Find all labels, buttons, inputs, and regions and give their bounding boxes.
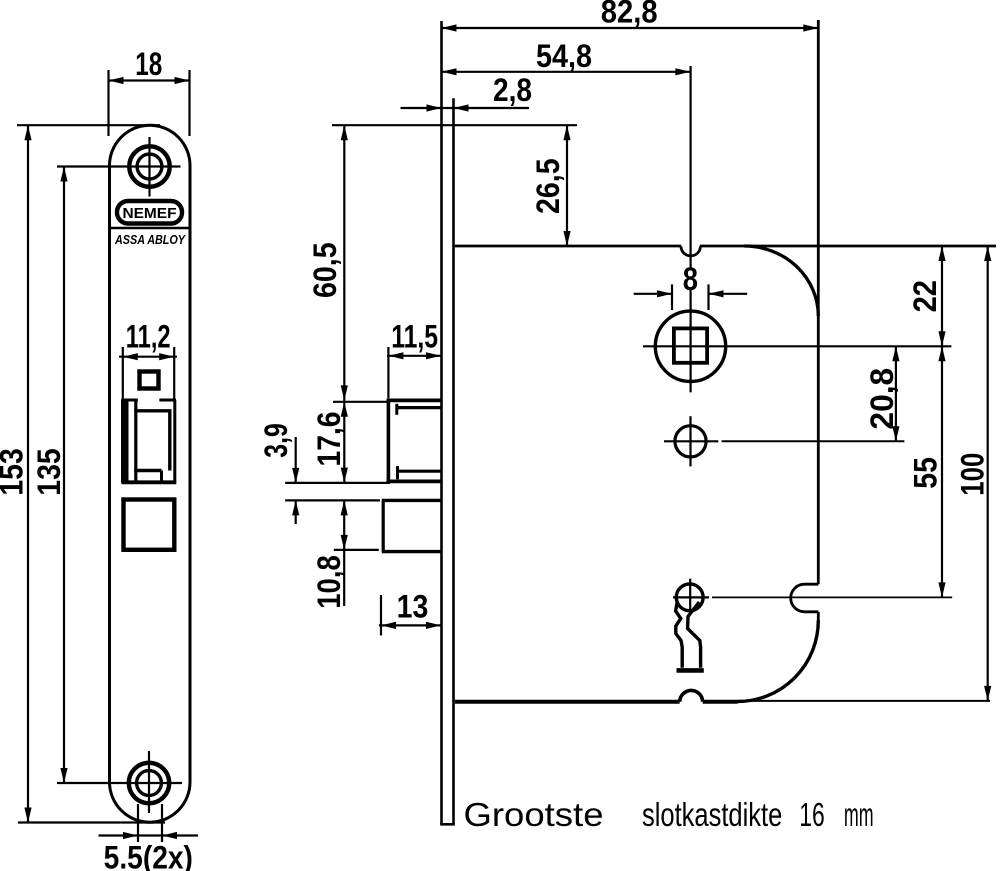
dimension 55 arrow bottom (938, 582, 945, 597)
latch cutout bottom edge (121, 480, 176, 484)
latch face black bar (121, 400, 129, 483)
dimension 82,8 arrow right (803, 24, 818, 31)
dimension 8 arrow left (657, 290, 672, 297)
case bottom edge left part (455, 700, 680, 704)
extension line y402 latch top (333, 401, 388, 403)
keyhole stem right profile (688, 602, 701, 668)
fixing hole circle (675, 426, 706, 457)
dimension 82,8 line (442, 27, 819, 29)
dimension 22 arrow top (938, 246, 945, 261)
extension line y550 for 10,8 (334, 549, 379, 551)
dimension 18 line (109, 79, 190, 81)
dimension 10,8 line (343, 500, 345, 606)
latch inner bottom line (134, 469, 161, 472)
case bottom extension line for 100 (738, 700, 991, 702)
svg-text:55: 55 (908, 457, 944, 489)
dimension 11,5 line (387, 355, 441, 357)
case top edge (455, 245, 682, 248)
case bottom notch (680, 690, 703, 701)
dimension 11,5 arrow right (426, 352, 441, 359)
top screw hole outer circle (129, 146, 169, 186)
dimension 54,8 line (442, 71, 691, 73)
svg-text:mm: mm (844, 796, 874, 833)
top screw centerline vertical (148, 137, 150, 197)
latch cutout right edge (173, 400, 176, 483)
case top edge right part / extension (700, 245, 996, 248)
dimension 5.5(2x) line (99, 834, 199, 836)
fixing hole centerline horizontal (664, 440, 718, 442)
latch side view bottom edge (387, 479, 441, 483)
deadbolt side view bottom edge (382, 550, 441, 553)
dimension 54,8 arrow right (675, 68, 690, 75)
dimension 135 arrow top (60, 167, 67, 182)
svg-text:5.5(2x): 5.5(2x) (104, 840, 193, 871)
latch inner top line (134, 409, 171, 412)
extension line y483 latch bottom (285, 482, 390, 484)
dimension 13 line (379, 624, 441, 626)
svg-text:60,5: 60,5 (307, 242, 343, 298)
svg-text:3,9: 3,9 (258, 423, 294, 457)
latch side view bottom lip (398, 470, 442, 473)
svg-text:153: 153 (0, 448, 30, 496)
case right edge upper / 82,8 extension (817, 20, 820, 584)
svg-text:11,2: 11,2 (126, 318, 171, 354)
keyhole bottom bar (677, 668, 704, 673)
dimension 22 line (941, 246, 943, 346)
bottom screw centerline horizontal / 135 extension (57, 782, 182, 784)
case right edge lower stub (817, 612, 820, 621)
svg-text:ASSA ABLOY: ASSA ABLOY (114, 232, 186, 247)
dimension 82,8 arrow left (442, 24, 457, 31)
dimension 20,8 arrow bottom (892, 426, 899, 441)
spindle centerline vertical lower (689, 290, 691, 393)
svg-text:82,8: 82,8 (601, 0, 658, 30)
dimension 60,5 line (343, 125, 345, 400)
svg-text:8: 8 (683, 261, 698, 297)
dimension 55 arrow top (938, 346, 945, 361)
dimension 5.5(2x) extension right (161, 804, 163, 842)
spindle centerline vertical upper / 54,8 extension (689, 66, 691, 269)
dimension 18 arrow right (175, 77, 190, 84)
dimension 8 arrow right (709, 290, 724, 297)
dimension 3,9 arrow upper (292, 468, 299, 483)
dimension 2,8 line (401, 107, 530, 109)
svg-text:100: 100 (954, 453, 990, 496)
NEMEF badge outline (117, 201, 182, 224)
dimension 11,5 extension left (387, 347, 389, 398)
dimension 26,5 arrow top (563, 125, 570, 140)
dimension 11,2 extension right (173, 347, 175, 399)
dimension 8 line right (709, 293, 748, 295)
fixing hole centerline vertical (689, 416, 691, 466)
latch side view top step (395, 404, 398, 415)
case top right corner arc (744, 246, 818, 316)
top screw centerline horizontal / 135 extension (57, 165, 181, 167)
extension line y125 for 60,5 and 26,5 (332, 124, 577, 126)
dimension 20,8 line (895, 346, 897, 441)
keyhole extension line for 55 (712, 596, 952, 598)
bottom screw centerline vertical (148, 751, 150, 813)
dimension 55 line (941, 346, 943, 597)
dimension 153 arrow top (24, 125, 31, 140)
keyhole centerline horizontal (673, 596, 709, 598)
latch side view bottom step (396, 466, 399, 479)
dimension 10,8 arrow top (341, 500, 348, 515)
svg-text:16: 16 (799, 796, 824, 833)
dimension 8 extension left (671, 284, 673, 310)
dimension 60,5 arrow bottom (341, 385, 348, 400)
dimension 2,8 arrow right (454, 104, 469, 111)
dimension 13 arrow left (381, 622, 396, 629)
top screw hole inner circle (137, 154, 162, 179)
svg-text:11,5: 11,5 (391, 318, 438, 354)
dimension 13 extension left (380, 595, 382, 636)
svg-text:20,8: 20,8 (864, 368, 900, 430)
faceplate cross line under badge (110, 227, 191, 229)
svg-text:54,8: 54,8 (536, 38, 592, 74)
latch notch line bottom right (160, 471, 163, 483)
dimension 100 arrow top (984, 246, 991, 261)
deadbolt side view top edge (382, 499, 441, 502)
dimension 17,6 line (343, 400, 345, 483)
svg-text:slotkastdikte: slotkastdikte (642, 796, 782, 833)
svg-text:26,5: 26,5 (530, 158, 566, 214)
dimension 26,5 arrow bottom (563, 231, 570, 246)
dimension 18 extension left (107, 70, 109, 136)
dimension 11,2 line (119, 356, 177, 358)
dimension 153 extension top (17, 124, 160, 126)
dimension 153 extension bottom (18, 821, 165, 823)
case right notch (791, 584, 819, 612)
svg-text:18: 18 (135, 46, 162, 82)
svg-text:22: 22 (907, 280, 943, 312)
dimension 100 line (987, 246, 989, 701)
dimension 5.5(2x) extension left (137, 804, 139, 842)
latch side view top lip (397, 406, 441, 409)
dimension 135 line (63, 167, 65, 784)
latch side view top edge (387, 398, 441, 402)
svg-text:Grootste: Grootste (464, 796, 604, 833)
dimension 11,2 arrow right (159, 353, 174, 360)
dimension 153 line (27, 125, 29, 822)
dimension 11,2 arrow left (123, 353, 138, 360)
svg-text:NEMEF: NEMEF (123, 205, 177, 222)
dimension 17,6 arrow bottom (341, 468, 348, 483)
keyhole circle (676, 584, 703, 611)
dimension 60,5 arrow top (341, 125, 348, 140)
dimension 153 arrow bottom (24, 808, 31, 823)
spindle centerline horizontal / 22 55 extension (643, 345, 951, 347)
dimension 2,8 arrow left (427, 104, 442, 111)
dimension 8 line left (634, 293, 672, 295)
deadbolt square hole front (124, 500, 175, 550)
spindle square hole front (140, 372, 159, 389)
latch slot line (134, 400, 137, 483)
svg-text:2,8: 2,8 (493, 72, 532, 108)
dimension 18 extension right (188, 70, 190, 136)
svg-text:135: 135 (31, 448, 67, 496)
dimension 3,9 line upper (295, 437, 297, 483)
fixing hole extension line for 20,8 (722, 440, 905, 442)
case bottom right arc (738, 621, 819, 702)
dimension 20,8 arrow top (892, 346, 899, 361)
bottom screw hole outer circle (129, 763, 169, 803)
latch cutout top edge right (159, 399, 176, 402)
dimension 26,5 line (566, 125, 568, 246)
deadbolt side view left edge (382, 500, 385, 551)
dimension 100 arrow bottom (984, 686, 991, 701)
extension line y500 deadbolt top (285, 499, 380, 501)
dimension 135 arrow bottom (60, 768, 67, 783)
dimension 54,8 arrow left (442, 68, 457, 75)
dimension 5.5(2x) arrow right (162, 832, 177, 839)
latch side view left edge (387, 399, 391, 483)
dimension 11,5 arrow left (388, 352, 403, 359)
svg-text:13: 13 (397, 589, 429, 625)
dimension 3,9 arrow lower (292, 500, 299, 515)
spindle square (674, 328, 707, 362)
faceplate side bar left line / 82,8 extension (440, 21, 443, 825)
case top notch (681, 246, 700, 256)
svg-text:17,6: 17,6 (311, 412, 347, 467)
faceplate side bar right line (452, 98, 455, 824)
dimension 10,8 arrow bottom (341, 535, 348, 550)
dimension 11,2 extension left (122, 347, 124, 399)
dimension 8 extension right (707, 284, 709, 310)
dimension 22 arrow bottom (938, 331, 945, 346)
faceplate side bar bottom cap (440, 823, 455, 826)
dimension 13 arrow right (426, 622, 441, 629)
faceplate outline (110, 125, 191, 822)
case bottom edge right part (703, 700, 738, 704)
dimension 5.5(2x) arrow left (123, 832, 138, 839)
latch inner right line (168, 411, 171, 471)
dimension 17,6 arrow top (341, 402, 348, 417)
dimension 3,9 line lower (295, 500, 297, 524)
latch cutout top edge left (121, 399, 137, 402)
dimension 18 arrow left (109, 77, 124, 84)
keyhole centerline vertical (689, 579, 691, 615)
spindle hub circle (655, 311, 725, 381)
bottom screw hole inner circle (137, 771, 162, 796)
keyhole stem left profile (676, 602, 683, 668)
svg-text:10,8: 10,8 (311, 555, 347, 609)
